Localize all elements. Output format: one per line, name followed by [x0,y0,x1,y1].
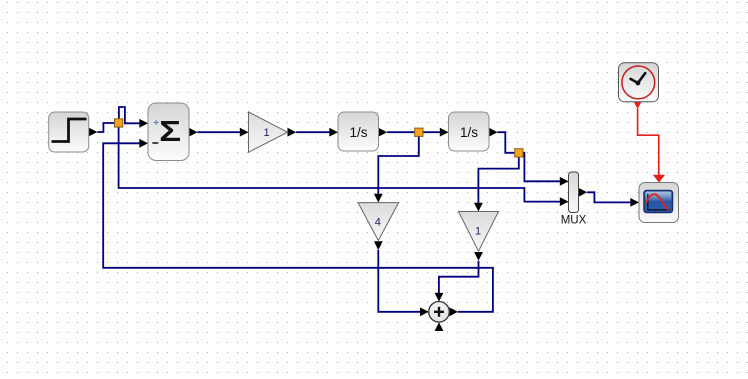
svg-text:1/s: 1/s [460,125,478,140]
svg-text:Σ: Σ [159,116,181,148]
svg-text:1: 1 [475,226,481,238]
svg-text:4: 4 [375,217,381,229]
svg-text:MUX: MUX [561,215,587,227]
svg-text:1: 1 [263,127,269,139]
svg-text:1/s: 1/s [349,125,367,140]
